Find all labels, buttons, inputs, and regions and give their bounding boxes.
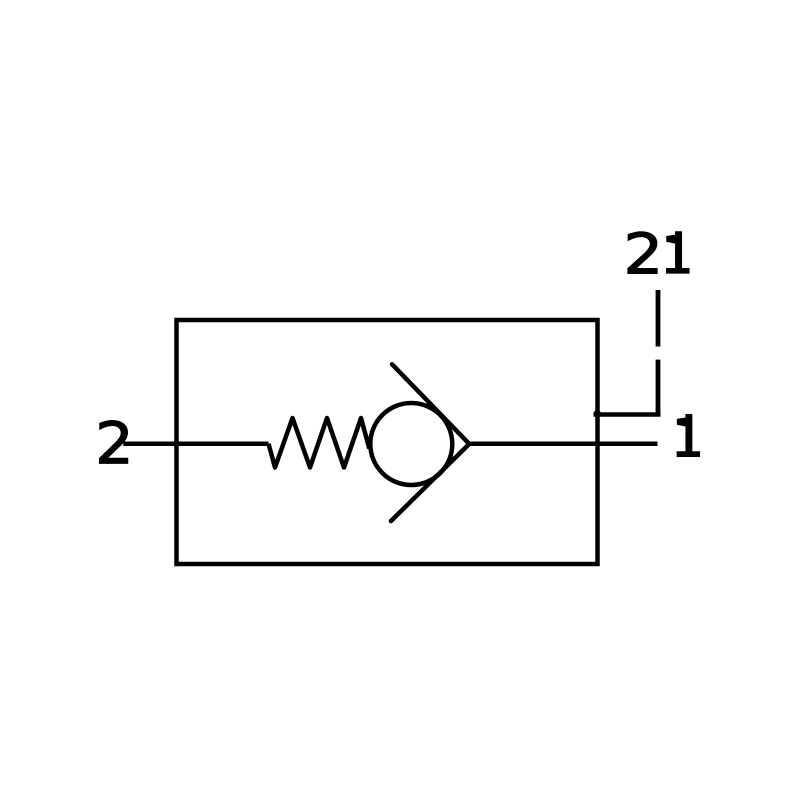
wire seat to port 1 bbox=[467, 441, 658, 446]
pilot line 21 (dashed) bbox=[656, 290, 661, 415]
wire pilot connector at rectangle edge bbox=[594, 412, 661, 417]
valve seat upper line bbox=[392, 364, 469, 444]
valve body enclosure rectangle bbox=[177, 320, 598, 564]
port 2 label bbox=[100, 421, 128, 464]
junction dot bbox=[594, 410, 601, 417]
spring bbox=[269, 418, 370, 468]
port 21 label bbox=[628, 232, 689, 273]
port 1 label bbox=[677, 415, 699, 457]
wire port 2 to spring bbox=[123, 441, 268, 446]
valve seat lower line bbox=[391, 444, 469, 521]
ball (circle) bbox=[370, 403, 452, 485]
